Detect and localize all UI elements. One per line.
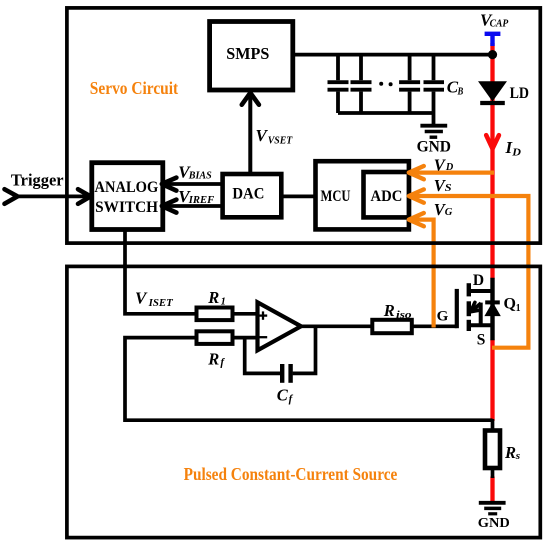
svg-text:LD: LD [510,85,529,102]
svg-text:BIAS: BIAS [188,171,212,182]
node VCAP blue terminal [485,34,501,46]
svg-text:CAP: CAP [490,19,510,30]
svg-text:S: S [477,332,486,349]
wire Riso to gate [412,324,457,328]
svg-text:G: G [437,309,449,325]
transistor Q1 source lead [469,323,493,327]
transistor Q1 drain-source vertical bar [490,278,494,341]
resistor Riso [372,320,412,333]
svg-text:S: S [445,183,452,194]
svg-text:Servo Circuit: Servo Circuit [90,78,179,98]
wire feedback from source node to Rf [125,338,493,421]
wire ANALOG SWITCH down to VISET row [125,230,197,314]
block ADC box (inside MCU) [364,172,409,217]
svg-text:VSET: VSET [268,135,293,146]
trigger arrowhead into ANALOG SWITCH [78,189,91,204]
svg-text:MCU: MCU [321,188,351,205]
ground symbol (bottom) [479,503,506,514]
wire op-amp output to Riso [299,324,372,328]
resistor Rf [197,331,233,344]
sense line VS (orange) with arrowhead into ADC [410,196,528,348]
capacitor C3 of bank [408,55,412,81]
wire to ground [432,113,436,124]
transistor Q1 body tie to source with diagonal arrow [479,303,483,326]
wire VBIAS from DAC to ANALOG SWITCH with arrowhead [165,182,223,186]
ground symbol (capacitor bank) [420,126,447,138]
wire R1 to op-amp + input [233,312,259,316]
sense line VG (orange) with arrowhead into ADC [410,220,434,328]
svg-text:D: D [511,147,521,159]
wire VIREF from DAC to ANALOG SWITCH with arrowhead [165,204,223,208]
pulsed constant-current source outer box [67,266,540,537]
wire Rs bottom lead [491,468,495,478]
svg-text:R: R [383,301,395,320]
capacitor Cf [282,364,290,383]
wire bottom rail of capacitor bank [338,111,434,115]
svg-text:V: V [135,289,148,308]
svg-text:B: B [457,86,464,97]
transistor Q1 drain lead [469,289,493,293]
wire red main current path (VCAP to LD to Q1 drain) [490,43,494,502]
wire Cf branch from inverting input node [245,338,281,374]
svg-text:IREF: IREF [188,195,215,206]
svg-text:V: V [256,126,269,145]
block MCU box [316,161,409,229]
svg-text:ISET: ISET [148,298,174,309]
servo circuit outer box [67,8,540,243]
svg-text:Trigger: Trigger [11,171,64,190]
svg-text:R: R [207,288,219,307]
body diode of Q1 [485,300,500,304]
svg-text:1: 1 [516,303,521,314]
wire Rf to op-amp - input [233,336,259,340]
svg-text:D: D [473,272,484,289]
svg-text:iso: iso [396,310,412,321]
wire VVSET from DAC up to SMPS with arrowhead [248,94,252,174]
svg-text:D: D [445,162,454,173]
current arrow ID on red wire [486,135,499,148]
svg-text:DAC: DAC [232,185,264,202]
capacitor C4 of bank [432,55,436,81]
svg-text:ANALOG: ANALOG [95,179,159,196]
sense line VD (orange) with arrowhead into ADC [410,171,494,175]
capacitor bank CB: four capacitors [328,55,445,125]
wire junction lead into Rs [491,419,495,432]
wire SMPS output to VCAP node [293,53,493,57]
svg-text:SMPS: SMPS [226,44,269,63]
wire Cf to output node [293,326,316,373]
svg-text:1: 1 [221,297,226,308]
svg-text:R: R [207,349,219,368]
svg-text:ADC: ADC [371,188,403,205]
svg-text:GND: GND [417,139,451,156]
svg-text:G: G [445,207,453,218]
op-amp plus sign [259,311,267,319]
laser diode LD [479,82,506,101]
resistor Rs [485,431,500,469]
capacitor C1 of bank [336,55,340,81]
resistor R1 [197,308,233,321]
wire Trigger input line [15,195,87,199]
capacitor C2 of bank [359,55,363,81]
wire DAC to MCU [281,195,315,199]
svg-text:SWITCH: SWITCH [95,199,158,216]
svg-text:GND: GND [478,516,510,531]
block ANALOG SWITCH box [92,163,163,230]
trigger source chevron [5,189,18,204]
transistor Q1 gate bar [455,289,459,328]
node junction dot at VCAP rail [488,50,497,59]
op-amp U1 triangle [258,302,302,350]
block DAC box [223,174,282,217]
svg-text:C: C [277,385,289,404]
ellipsis dots between capacitors [379,82,383,86]
svg-text:Q: Q [504,295,516,312]
op-amp minus sign [259,336,267,338]
transistor Q1 channel segments [467,283,471,331]
svg-text:s: s [515,451,521,462]
svg-text:R: R [504,443,516,462]
block SMPS box [210,22,293,91]
svg-text:Pulsed Constant-Current Source: Pulsed Constant-Current Source [184,464,398,484]
